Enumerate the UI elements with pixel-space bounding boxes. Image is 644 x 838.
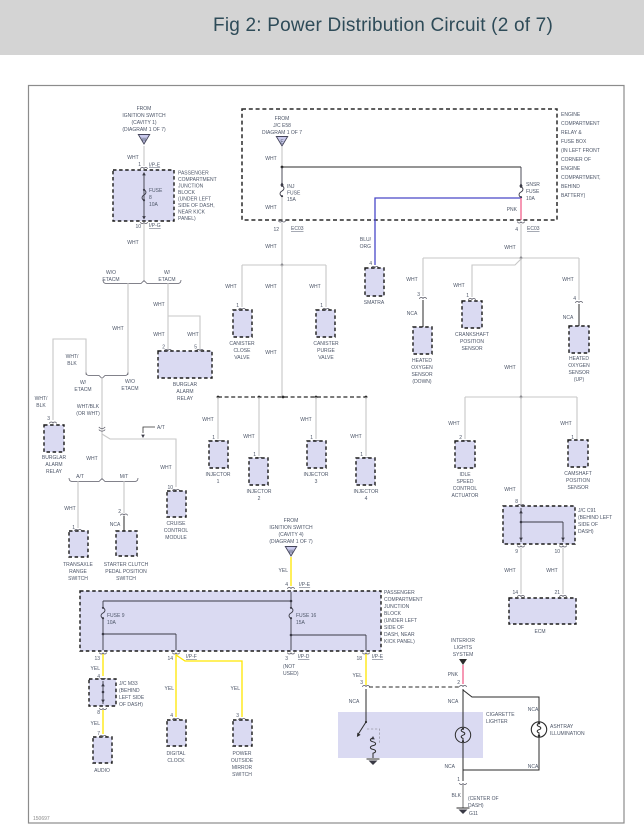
A/T tag arrow bbox=[141, 425, 165, 438]
svg-text:PEDAL POSITION: PEDAL POSITION bbox=[105, 569, 147, 575]
svg-text:LIGHTER: LIGHTER bbox=[486, 719, 508, 725]
fuse INJ FUSE 15A bbox=[280, 167, 301, 203]
svg-text:WHT: WHT bbox=[160, 465, 171, 471]
svg-text:ORG: ORG bbox=[360, 244, 372, 250]
svg-text:YEL: YEL bbox=[165, 686, 175, 692]
trunk wire WHT/BLK (OR WHT) bbox=[76, 378, 105, 478]
svg-text:FUSE 9: FUSE 9 bbox=[107, 613, 125, 619]
svg-text:POSITION: POSITION bbox=[566, 478, 590, 484]
svg-text:WHT: WHT bbox=[309, 284, 320, 290]
svg-text:WHT: WHT bbox=[153, 302, 164, 308]
svg-text:M/T: M/T bbox=[120, 474, 129, 480]
svg-text:WHT: WHT bbox=[350, 434, 361, 440]
canister close valve bbox=[229, 303, 255, 361]
svg-text:1: 1 bbox=[138, 162, 141, 168]
svg-text:INJECTOR: INJECTOR bbox=[206, 472, 231, 478]
svg-text:ENGINE: ENGINE bbox=[561, 112, 581, 118]
svg-text:8: 8 bbox=[515, 499, 518, 505]
svg-text:WHT/: WHT/ bbox=[35, 396, 48, 402]
svg-text:CIGARETTE: CIGARETTE bbox=[486, 712, 515, 718]
audio, pin 7 bbox=[93, 731, 112, 774]
pin 12 EC03 bbox=[273, 221, 303, 234]
svg-text:CAMSHAFT: CAMSHAFT bbox=[564, 471, 592, 477]
fuse FUSE 9 10A bbox=[101, 607, 105, 620]
wire BLK to ground bbox=[452, 785, 463, 808]
svg-text:WHT: WHT bbox=[265, 156, 276, 162]
pin 1 bbox=[457, 777, 466, 784]
svg-text:VALVE: VALVE bbox=[318, 355, 334, 361]
svg-text:W/: W/ bbox=[80, 380, 87, 386]
svg-text:(DIAGRAM 1 OF 7): (DIAGRAM 1 OF 7) bbox=[269, 539, 313, 545]
wire through lighter element bbox=[462, 689, 464, 727]
svg-text:18: 18 bbox=[356, 656, 362, 662]
svg-text:(DIAGRAM 1 OF 7): (DIAGRAM 1 OF 7) bbox=[122, 127, 166, 133]
idle speed control actuator, pin 2 bbox=[451, 435, 478, 499]
svg-text:1: 1 bbox=[212, 435, 215, 441]
svg-text:J/C E58: J/C E58 bbox=[273, 123, 291, 129]
svg-text:KICK PANEL): KICK PANEL) bbox=[384, 639, 415, 645]
svg-text:COMPARTMENT: COMPARTMENT bbox=[384, 597, 423, 603]
svg-text:BLK: BLK bbox=[452, 793, 462, 799]
svg-text:RELAY: RELAY bbox=[46, 469, 63, 475]
svg-text:WHT: WHT bbox=[265, 284, 276, 290]
svg-text:(UP): (UP) bbox=[574, 377, 585, 383]
svg-text:I/P-E: I/P-E bbox=[149, 163, 161, 169]
canister purge valve bbox=[313, 303, 339, 361]
svg-text:SWITCH: SWITCH bbox=[68, 576, 88, 582]
svg-text:WHT: WHT bbox=[453, 283, 464, 289]
svg-text:WHT: WHT bbox=[225, 284, 236, 290]
pin 3 I/P-D (not used) bbox=[283, 653, 310, 678]
component label passenger compartment junction block (lower) bbox=[384, 590, 423, 645]
svg-text:JUNCTION: JUNCTION bbox=[384, 604, 410, 610]
svg-text:21: 21 bbox=[554, 590, 560, 596]
svg-text:YEL: YEL bbox=[353, 673, 363, 679]
svg-text:10: 10 bbox=[135, 224, 141, 230]
svg-text:LIGHTS: LIGHTS bbox=[454, 645, 473, 651]
wire YEL to lighter assembly bbox=[353, 654, 366, 685]
svg-text:SYSTEM: SYSTEM bbox=[453, 652, 474, 658]
svg-text:10A: 10A bbox=[107, 620, 117, 626]
svg-text:(DOWN): (DOWN) bbox=[412, 379, 431, 385]
svg-text:DASH, NEAR: DASH, NEAR bbox=[384, 632, 415, 638]
svg-text:1: 1 bbox=[217, 479, 220, 485]
svg-text:SNSR: SNSR bbox=[526, 182, 540, 188]
svg-text:W/O: W/O bbox=[106, 270, 116, 276]
svg-text:FROM: FROM bbox=[137, 106, 152, 112]
svg-text:PURGE: PURGE bbox=[317, 348, 335, 354]
svg-text:SIDE OF: SIDE OF bbox=[578, 522, 598, 528]
off-page triangle W bbox=[138, 135, 149, 145]
svg-text:NCA: NCA bbox=[528, 764, 539, 770]
svg-text:FUSE: FUSE bbox=[526, 189, 540, 195]
svg-text:YEL: YEL bbox=[279, 568, 289, 574]
wire PNK bbox=[448, 665, 463, 684]
svg-text:9: 9 bbox=[515, 549, 518, 555]
svg-text:WHT: WHT bbox=[504, 365, 515, 371]
wires WHT to ECM bbox=[504, 548, 563, 594]
svg-text:JUNCTION: JUNCTION bbox=[178, 184, 204, 190]
svg-text:NEAR KICK: NEAR KICK bbox=[178, 210, 206, 216]
svg-text:DASH): DASH) bbox=[468, 803, 484, 809]
svg-text:BATTERY): BATTERY) bbox=[561, 193, 586, 199]
wire A/T branch bbox=[64, 481, 78, 528]
svg-text:15A: 15A bbox=[287, 197, 297, 203]
svg-text:INJECTOR: INJECTOR bbox=[354, 489, 379, 495]
pin 4 I/P-E bbox=[285, 582, 311, 589]
svg-text:3: 3 bbox=[417, 292, 420, 298]
wire lighter to pin 1 bbox=[444, 743, 463, 781]
component label passenger compartment junction block bbox=[178, 171, 217, 223]
svg-text:J/C C91: J/C C91 bbox=[578, 508, 596, 514]
svg-text:I/P-E: I/P-E bbox=[299, 582, 311, 588]
svg-text:ETACM: ETACM bbox=[158, 277, 175, 283]
lighter element bbox=[455, 727, 470, 742]
socket bimetal switch bbox=[357, 721, 367, 737]
wire WHT from triangle bbox=[265, 147, 282, 167]
svg-text:OUTSIDE: OUTSIDE bbox=[231, 758, 254, 764]
svg-text:10: 10 bbox=[554, 549, 560, 555]
svg-text:NCA: NCA bbox=[448, 699, 459, 705]
svg-text:MODULE: MODULE bbox=[165, 535, 187, 541]
wire branch to cruise control bbox=[102, 434, 176, 487]
svg-text:CANISTER: CANISTER bbox=[229, 341, 255, 347]
svg-text:STARTER CLUTCH: STARTER CLUTCH bbox=[104, 562, 149, 568]
svg-text:(CENTER OF: (CENTER OF bbox=[468, 796, 499, 802]
svg-text:CANISTER: CANISTER bbox=[313, 341, 339, 347]
fuse box: passenger junction block (fuse 8) bbox=[113, 170, 174, 221]
svg-text:ETACM: ETACM bbox=[102, 277, 119, 283]
svg-text:YEL: YEL bbox=[231, 686, 241, 692]
transaxle range switch bbox=[63, 525, 93, 582]
svg-text:WHT: WHT bbox=[127, 155, 138, 161]
svg-text:4: 4 bbox=[170, 713, 173, 719]
svg-text:WHT/: WHT/ bbox=[66, 354, 79, 360]
svg-text:3: 3 bbox=[285, 656, 288, 662]
svg-text:INJ: INJ bbox=[287, 184, 295, 190]
svg-text:ALARM: ALARM bbox=[176, 389, 193, 395]
svg-text:COMPARTMENT: COMPARTMENT bbox=[561, 121, 600, 127]
svg-text:WHT: WHT bbox=[265, 205, 276, 211]
wire W/O ETACM branch bbox=[112, 283, 128, 375]
svg-text:3: 3 bbox=[360, 680, 363, 686]
svg-text:15A: 15A bbox=[296, 620, 306, 626]
svg-text:COMPARTMENT: COMPARTMENT bbox=[178, 177, 217, 183]
svg-text:CORNER OF: CORNER OF bbox=[561, 157, 591, 163]
svg-text:W: W bbox=[142, 138, 147, 144]
svg-text:RELAY: RELAY bbox=[177, 396, 194, 402]
wire WHT below EC03 bbox=[504, 224, 521, 258]
svg-text:NCA: NCA bbox=[528, 707, 539, 713]
svg-text:1: 1 bbox=[320, 303, 323, 309]
svg-text:A/T: A/T bbox=[157, 425, 165, 431]
svg-text:WHT: WHT bbox=[153, 332, 164, 338]
pin 14 I/P-F bbox=[167, 653, 196, 663]
svg-text:IGNITION SWITCH: IGNITION SWITCH bbox=[269, 525, 313, 531]
svg-text:A/T: A/T bbox=[76, 474, 84, 480]
svg-text:MIRROR: MIRROR bbox=[232, 765, 253, 771]
node: sensor rail junction bbox=[520, 257, 523, 260]
svg-text:1: 1 bbox=[360, 452, 363, 458]
svg-text:PASSENGER: PASSENGER bbox=[178, 171, 209, 177]
svg-text:WHT: WHT bbox=[187, 332, 198, 338]
svg-text:2: 2 bbox=[258, 496, 261, 502]
svg-text:3: 3 bbox=[315, 479, 318, 485]
svg-text:BLK: BLK bbox=[67, 361, 77, 367]
svg-text:POWER: POWER bbox=[233, 751, 252, 757]
svg-text:WHT: WHT bbox=[560, 421, 571, 427]
svg-text:SIDE OF: SIDE OF bbox=[384, 625, 404, 631]
svg-text:ILLUMINATION: ILLUMINATION bbox=[550, 731, 585, 737]
wire sensor rail bbox=[423, 257, 579, 259]
inline connector bbox=[99, 427, 105, 431]
svg-text:I/P-D: I/P-D bbox=[298, 654, 310, 660]
svg-text:ECM: ECM bbox=[534, 629, 545, 635]
svg-text:PANEL): PANEL) bbox=[178, 216, 196, 222]
wire feed rail to SNSR fuse bbox=[282, 166, 521, 168]
digital clock, pin 4 bbox=[166, 713, 186, 764]
merge bracket W/ ETACM | W/O ETACM bbox=[74, 373, 138, 394]
svg-text:PNK: PNK bbox=[507, 207, 518, 213]
svg-text:COMPARTMENT,: COMPARTMENT, bbox=[561, 175, 601, 181]
svg-text:FUSE 16: FUSE 16 bbox=[296, 613, 317, 619]
svg-text:W/: W/ bbox=[164, 270, 171, 276]
J/C M33, pins 4,8 bbox=[89, 674, 145, 716]
svg-text:1: 1 bbox=[457, 777, 460, 783]
svg-text:OXYGEN: OXYGEN bbox=[411, 365, 433, 371]
svg-text:3: 3 bbox=[236, 713, 239, 719]
wire canister rail bbox=[242, 264, 326, 266]
wire to idle speed control actuator bbox=[448, 397, 465, 439]
component label engine compartment relay & fuse box bbox=[561, 112, 601, 199]
svg-text:BLOCK: BLOCK bbox=[178, 190, 196, 196]
svg-text:USED): USED) bbox=[283, 671, 299, 677]
camshaft position sensor, pin 1 bbox=[564, 435, 592, 491]
svg-text:BURGLAR: BURGLAR bbox=[42, 455, 67, 461]
svg-text:4: 4 bbox=[573, 296, 576, 302]
heater coil bbox=[370, 736, 375, 758]
component label ashtray illumination bbox=[550, 724, 585, 737]
svg-text:1: 1 bbox=[253, 452, 256, 458]
svg-text:IDLE: IDLE bbox=[459, 472, 471, 478]
svg-text:DIAGRAM 1 OF 7: DIAGRAM 1 OF 7 bbox=[262, 130, 302, 136]
svg-text:INJECTOR: INJECTOR bbox=[304, 472, 329, 478]
svg-text:HEATED: HEATED bbox=[412, 358, 432, 364]
svg-text:BLOCK: BLOCK bbox=[384, 611, 402, 617]
svg-text:SPEED: SPEED bbox=[457, 479, 474, 485]
wire YEL to digital clock bbox=[165, 654, 176, 717]
svg-text:WHT: WHT bbox=[265, 244, 276, 250]
svg-text:2: 2 bbox=[457, 680, 460, 686]
fuse FUSE 8 10A bbox=[142, 189, 146, 202]
svg-text:RELAY &: RELAY & bbox=[561, 130, 582, 136]
pin 1 I/P-E bbox=[138, 162, 161, 169]
source label FROM J/C E58 bbox=[262, 116, 302, 136]
svg-text:WHT: WHT bbox=[86, 456, 97, 462]
svg-text:14: 14 bbox=[512, 590, 518, 596]
svg-text:1: 1 bbox=[466, 293, 469, 299]
ground (coil) bbox=[367, 759, 380, 765]
svg-text:4: 4 bbox=[369, 261, 372, 267]
heated oxygen sensor (down), pin 3 bbox=[407, 292, 433, 385]
injector 3 bbox=[304, 435, 329, 485]
fuse SNSR FUSE 10A bbox=[519, 167, 540, 202]
cruise control module bbox=[164, 485, 189, 541]
fuse FUSE 16 15A bbox=[289, 607, 293, 620]
split bracket A/T | M/T bbox=[69, 474, 138, 482]
pin 13 bbox=[94, 653, 106, 663]
svg-text:CRUISE: CRUISE bbox=[167, 521, 187, 527]
svg-text:WHT: WHT bbox=[127, 240, 138, 246]
svg-text:INJECTOR: INJECTOR bbox=[247, 489, 272, 495]
svg-text:WHT: WHT bbox=[504, 487, 515, 493]
pin 4 EC03 bbox=[515, 222, 540, 234]
wire WHT/BLK relay branch bbox=[35, 339, 86, 420]
wire WHT down to option split bbox=[127, 224, 144, 280]
node: feed junction bbox=[281, 166, 284, 169]
wire to crankshaft position sensor bbox=[453, 259, 521, 297]
source label FROM IGNITION SWITCH (CAVITY 4) bbox=[269, 518, 313, 545]
svg-text:12: 12 bbox=[273, 227, 279, 233]
J/C C91 pins 9,10 bbox=[515, 546, 566, 556]
svg-text:CRANKSHAFT: CRANKSHAFT bbox=[455, 332, 489, 338]
svg-text:4: 4 bbox=[365, 496, 368, 502]
svg-text:NCA: NCA bbox=[563, 315, 574, 321]
ground G11 bbox=[457, 796, 499, 817]
svg-text:BLK: BLK bbox=[36, 403, 46, 409]
wire NCA labels bbox=[349, 699, 459, 705]
svg-text:HEATED: HEATED bbox=[569, 356, 589, 362]
off-page triangle E bbox=[276, 137, 287, 147]
component label cigarette lighter bbox=[486, 712, 515, 725]
wire PNK below SNSR fuse bbox=[507, 198, 521, 220]
svg-text:INTERIOR: INTERIOR bbox=[451, 638, 475, 644]
wire WHT below INJ fuse bbox=[265, 197, 282, 219]
svg-text:YEL: YEL bbox=[91, 721, 101, 727]
wire YEL to junction block bbox=[279, 557, 291, 586]
burglar alarm relay (pin 3) bbox=[42, 416, 67, 475]
svg-text:J/C M33: J/C M33 bbox=[119, 681, 138, 687]
wire BLU/ORG to SMATRA bbox=[360, 198, 521, 265]
svg-text:SENSOR: SENSOR bbox=[411, 372, 433, 378]
svg-text:ENGINE: ENGINE bbox=[561, 166, 581, 172]
wire WHT injector feed bbox=[265, 265, 282, 396]
pin 18 I/P-E bbox=[356, 653, 383, 663]
svg-text:WHT: WHT bbox=[504, 568, 515, 574]
svg-text:RANGE: RANGE bbox=[69, 569, 87, 575]
svg-text:WHT: WHT bbox=[546, 568, 557, 574]
system arrow bbox=[459, 659, 467, 665]
svg-text:WHT: WHT bbox=[448, 421, 459, 427]
wire WHT to fuse box bbox=[127, 146, 144, 166]
svg-text:DASH): DASH) bbox=[578, 529, 594, 535]
starter clutch pedal position switch bbox=[104, 531, 149, 582]
option split bracket W/O ETACM | W/ ETACM bbox=[102, 270, 181, 284]
svg-text:SWITCH: SWITCH bbox=[116, 576, 136, 582]
wire to injector 1 bbox=[202, 397, 218, 439]
off-page triangle W bbox=[285, 547, 296, 557]
svg-text:BURGLAR: BURGLAR bbox=[173, 382, 198, 388]
svg-text:WHT: WHT bbox=[265, 350, 276, 356]
source label FROM IGNITION SWITCH (CAVITY 1) bbox=[122, 106, 166, 133]
svg-text:WHT: WHT bbox=[406, 277, 417, 283]
svg-text:CLOCK: CLOCK bbox=[167, 758, 185, 764]
svg-text:SENSOR: SENSOR bbox=[567, 485, 589, 491]
svg-text:PASSENGER: PASSENGER bbox=[384, 590, 415, 596]
svg-text:SIDE OF DASH,: SIDE OF DASH, bbox=[178, 203, 215, 209]
svg-text:I/P-E: I/P-E bbox=[372, 654, 384, 660]
svg-text:ETACM: ETACM bbox=[74, 387, 91, 393]
pin 10 I/P-G bbox=[135, 222, 160, 230]
svg-text:WHT/BLK: WHT/BLK bbox=[77, 404, 100, 410]
ECM pins 14,21 bbox=[512, 590, 566, 597]
J/C C91, pin 8 bbox=[503, 499, 612, 544]
svg-text:(CAVITY 4): (CAVITY 4) bbox=[278, 532, 303, 538]
wire from ashtray down bbox=[463, 737, 539, 770]
svg-text:CONTROL: CONTROL bbox=[164, 528, 189, 534]
svg-text:(OR WHT): (OR WHT) bbox=[76, 411, 100, 417]
svg-text:8: 8 bbox=[149, 195, 152, 201]
svg-text:EC03: EC03 bbox=[291, 226, 304, 232]
svg-text:W: W bbox=[289, 550, 294, 556]
lighter assembly pins 2,3 + dashed link bbox=[360, 680, 466, 687]
wire YEL to audio bbox=[91, 710, 103, 734]
svg-text:(UNDER LEFT: (UNDER LEFT bbox=[178, 197, 211, 203]
svg-text:AUDIO: AUDIO bbox=[94, 768, 110, 774]
svg-text:(IN LEFT FRONT: (IN LEFT FRONT bbox=[561, 148, 600, 154]
ECM bbox=[509, 598, 576, 635]
passenger compartment junction block (fuses 9,16) bbox=[80, 591, 381, 651]
svg-text:10: 10 bbox=[167, 485, 173, 491]
wire actuator rail bbox=[465, 396, 577, 398]
injector 2 bbox=[247, 452, 272, 502]
svg-text:FROM: FROM bbox=[275, 116, 290, 122]
svg-text:WHT: WHT bbox=[243, 434, 254, 440]
svg-text:4: 4 bbox=[285, 582, 288, 588]
svg-text:ACTUATOR: ACTUATOR bbox=[451, 493, 478, 499]
svg-text:SENSOR: SENSOR bbox=[461, 346, 483, 352]
wire YEL to J/C M33 bbox=[91, 654, 103, 676]
SMATRA bbox=[364, 261, 385, 306]
svg-text:YEL: YEL bbox=[91, 666, 101, 672]
cigarette lighter assembly body bbox=[338, 712, 483, 758]
svg-text:WHT: WHT bbox=[562, 277, 573, 283]
wire to camshaft position sensor bbox=[560, 397, 577, 439]
wire W/ ETACM branch to relay bbox=[153, 283, 200, 349]
svg-text:CONTROL: CONTROL bbox=[453, 486, 478, 492]
svg-text:1: 1 bbox=[310, 435, 313, 441]
wire to heated oxygen sensor (down) bbox=[406, 258, 423, 296]
wire to canister purge valve bbox=[309, 265, 326, 307]
svg-text:ASHTRAY: ASHTRAY bbox=[550, 724, 574, 730]
engine compartment relay & fuse box outline bbox=[242, 109, 557, 220]
svg-text:(BEHIND LEFT: (BEHIND LEFT bbox=[578, 515, 612, 521]
svg-text:1: 1 bbox=[236, 303, 239, 309]
svg-text:LEFT SIDE: LEFT SIDE bbox=[119, 695, 145, 701]
svg-text:NCA: NCA bbox=[349, 699, 360, 705]
linkage (dashed) bbox=[367, 729, 380, 744]
wire to injector 3 bbox=[300, 397, 316, 439]
burglar alarm relay (pins 2,5) bbox=[158, 345, 212, 403]
wire to injector 4 bbox=[350, 397, 366, 456]
svg-text:I/P-F: I/P-F bbox=[186, 654, 197, 660]
wire YEL to mirror switch bbox=[176, 655, 242, 717]
svg-text:POSITION: POSITION bbox=[460, 339, 484, 345]
svg-text:WHT: WHT bbox=[112, 326, 123, 332]
source label INTERIOR LIGHTS SYSTEM bbox=[451, 638, 475, 658]
injector 1 bbox=[206, 435, 231, 485]
svg-text:EC03: EC03 bbox=[527, 226, 540, 232]
